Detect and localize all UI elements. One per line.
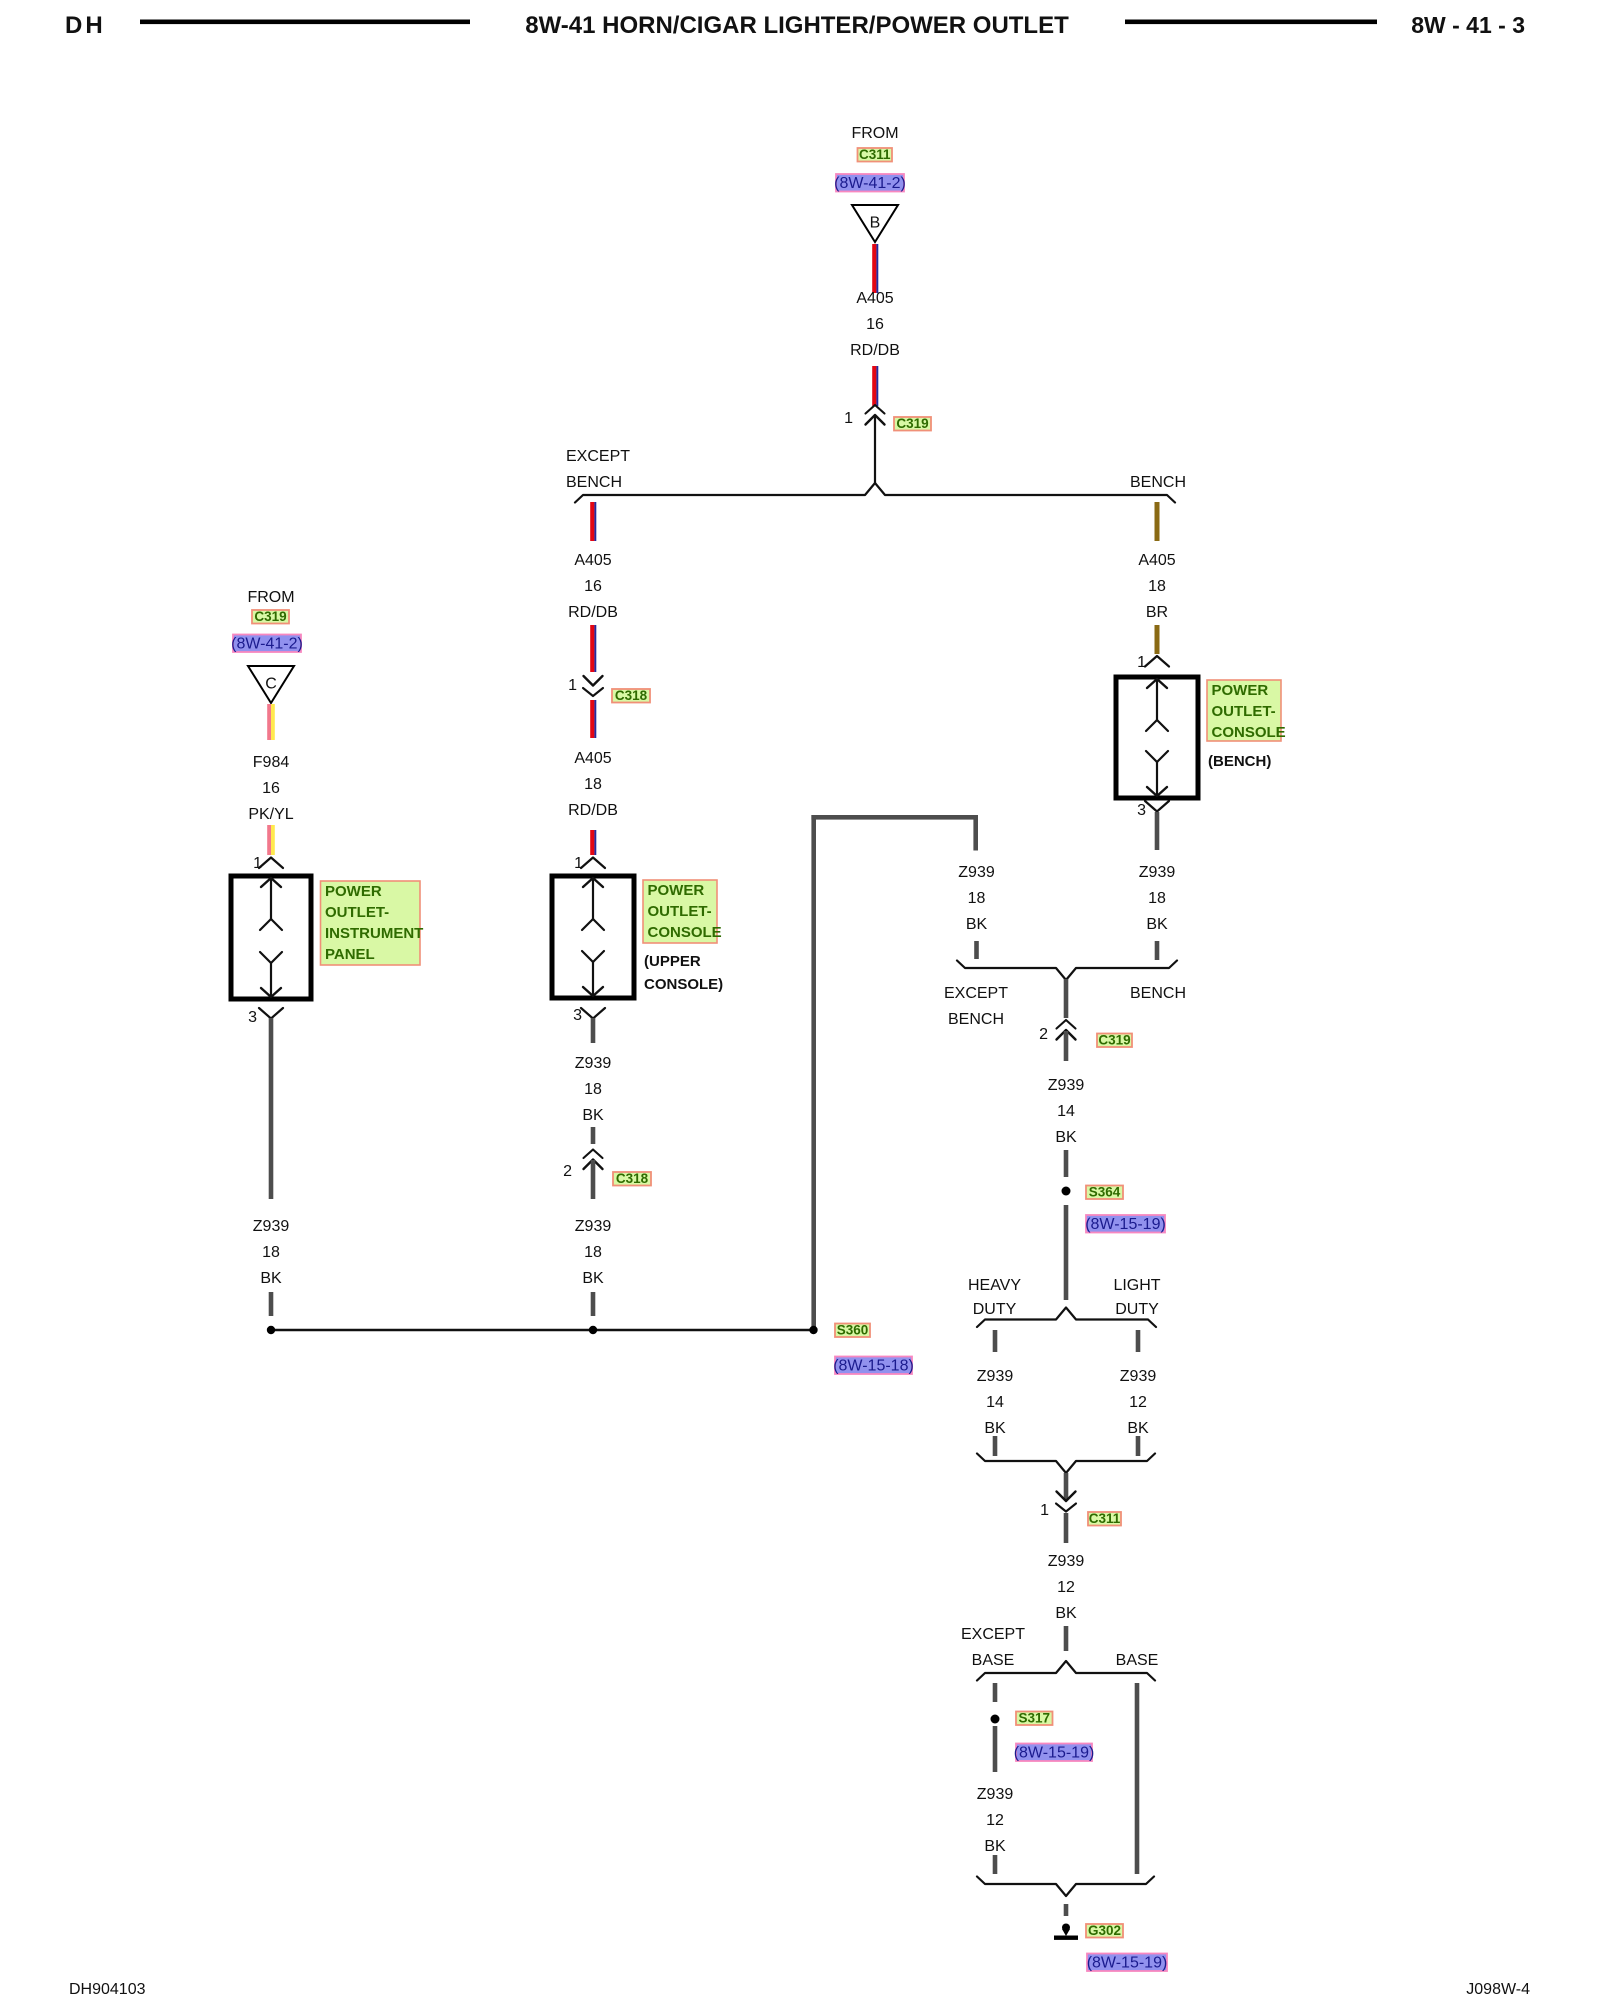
svg-text:RD/DB: RD/DB bbox=[850, 342, 900, 359]
wire Z939 12 BK stub (except base) bbox=[993, 1683, 998, 1702]
value label Z939 18 BK (instrument panel) bbox=[253, 1218, 290, 1287]
pin 1 terminal of power outlet-console (bench) bbox=[1145, 656, 1169, 667]
wire A405 18 RD/DB into power outlet console bbox=[590, 830, 596, 855]
option merge: heavy/light duty bbox=[977, 1454, 1155, 1474]
wire Z939 18 BK elbow from S360 bus to merge (except bench) bbox=[811, 815, 978, 1330]
wire A405 18 BR into power outlet-console (bench) bbox=[1155, 625, 1160, 654]
svg-text:BASE: BASE bbox=[972, 1652, 1015, 1669]
svg-text:14: 14 bbox=[1057, 1103, 1075, 1120]
svg-text:(8W-41-2): (8W-41-2) bbox=[834, 175, 906, 192]
svg-text:S317: S317 bbox=[1018, 1711, 1050, 1726]
value label Z939 12 BK (light duty) bbox=[1120, 1368, 1157, 1437]
wire Z939 18 BK stub into merge (except bench) bbox=[974, 941, 979, 959]
wire Z939 BK stub into ground G302 bbox=[1064, 1904, 1069, 1916]
svg-text:BASE: BASE bbox=[1116, 1652, 1159, 1669]
svg-text:POWER: POWER bbox=[325, 883, 382, 900]
component label POWER OUTLET-INSTRUMENT PANEL bbox=[321, 881, 424, 965]
svg-text:16: 16 bbox=[262, 780, 280, 797]
connector label C319 (left feed) bbox=[252, 609, 289, 624]
svg-text:1: 1 bbox=[844, 410, 853, 427]
svg-text:BK: BK bbox=[966, 916, 988, 933]
value label Z939 12 BK bbox=[1048, 1553, 1085, 1622]
svg-text:18: 18 bbox=[968, 890, 986, 907]
power outlet-instrument panel U1 bbox=[231, 876, 311, 999]
value label Z939 14 BK (heavy duty) bbox=[977, 1368, 1014, 1437]
svg-text:LIGHT: LIGHT bbox=[1113, 1277, 1160, 1294]
svg-text:B: B bbox=[870, 215, 881, 232]
svg-text:POWER: POWER bbox=[648, 882, 705, 899]
svg-text:C: C bbox=[265, 676, 277, 693]
svg-text:BK: BK bbox=[1146, 916, 1168, 933]
svg-text:8W - 41 - 3: 8W - 41 - 3 bbox=[1411, 12, 1525, 38]
value label F984 16 PK/YL bbox=[248, 754, 293, 823]
wire Z939 14 BK stub (heavy duty) bbox=[993, 1330, 998, 1352]
wire F984 16 PK/YL into power outlet-instrument panel bbox=[267, 825, 275, 855]
page header bbox=[65, 12, 1525, 39]
splice label S364 bbox=[1086, 1185, 1123, 1200]
svg-text:(8W-15-18): (8W-15-18) bbox=[833, 1358, 914, 1375]
connector label C318 (lower) bbox=[613, 1171, 651, 1186]
node FROM C311 heading bbox=[851, 125, 898, 142]
svg-text:EXCEPT: EXCEPT bbox=[944, 985, 1008, 1002]
svg-text:2: 2 bbox=[563, 1163, 572, 1180]
wire Z939 18 BK below power outlet-console (bench) bbox=[1155, 812, 1160, 850]
off-page connector B (from C311) bbox=[852, 205, 898, 242]
wire Z939 14 BK into splice S364 bbox=[1064, 1150, 1069, 1177]
svg-text:EXCEPT: EXCEPT bbox=[566, 448, 630, 465]
svg-text:BK: BK bbox=[1127, 1420, 1149, 1437]
svg-text:16: 16 bbox=[584, 578, 602, 595]
svg-text:A405: A405 bbox=[574, 552, 611, 569]
svg-text:Z939: Z939 bbox=[1139, 864, 1176, 881]
off-page connector C (from C319) bbox=[248, 666, 294, 703]
svg-text:18: 18 bbox=[584, 1244, 602, 1261]
svg-text:C319: C319 bbox=[254, 609, 286, 624]
pin 3 terminal of power outlet-console (upper) bbox=[581, 1008, 605, 1019]
connector C319 pin 1 (inline) bbox=[866, 405, 885, 425]
svg-text:S360: S360 bbox=[837, 1323, 869, 1338]
connector C311 pin 1 (inline) bbox=[1056, 1492, 1076, 1512]
wire from C319 to option split bbox=[874, 415, 876, 484]
reference label (8W-15-19) for G302 bbox=[1087, 1954, 1168, 1972]
svg-text:A405: A405 bbox=[856, 290, 893, 307]
svg-text:2: 2 bbox=[1039, 1026, 1048, 1043]
wire Z939 14 BK below C319 bbox=[1064, 1031, 1069, 1061]
svg-text:Z939: Z939 bbox=[958, 864, 995, 881]
svg-text:Z939: Z939 bbox=[977, 1368, 1014, 1385]
svg-text:BENCH: BENCH bbox=[566, 474, 622, 491]
value label Z939 14 BK bbox=[1048, 1077, 1085, 1146]
svg-text:1: 1 bbox=[568, 677, 577, 694]
svg-text:C311: C311 bbox=[1089, 1511, 1121, 1526]
svg-text:DUTY: DUTY bbox=[973, 1301, 1017, 1318]
svg-text:12: 12 bbox=[1129, 1394, 1147, 1411]
svg-text:BENCH: BENCH bbox=[1130, 985, 1186, 1002]
power outlet-console (bench) U3 bbox=[1116, 677, 1198, 798]
option label BENCH (right branch) bbox=[1130, 474, 1186, 491]
svg-text:HEAVY: HEAVY bbox=[968, 1277, 1021, 1294]
wire Z939 12 BK below S317 bbox=[993, 1726, 998, 1772]
svg-text:G302: G302 bbox=[1088, 1923, 1121, 1938]
svg-text:BR: BR bbox=[1146, 604, 1168, 621]
svg-text:Z939: Z939 bbox=[977, 1786, 1014, 1803]
reference label (8W-15-19) for S364 bbox=[1085, 1215, 1166, 1233]
svg-text:(8W-41-2): (8W-41-2) bbox=[231, 636, 303, 653]
svg-text:BK: BK bbox=[260, 1270, 282, 1287]
svg-text:1: 1 bbox=[574, 855, 583, 872]
svg-text:BK: BK bbox=[582, 1270, 604, 1287]
connector label C319 (top) bbox=[894, 416, 931, 431]
option split: EXCEPT BASE / BASE bbox=[977, 1661, 1155, 1681]
svg-text:Z939: Z939 bbox=[1048, 1553, 1085, 1570]
wire Z939 12 BK stub (light duty) bbox=[1136, 1330, 1141, 1352]
connector C318 pin 1 (inline) bbox=[583, 676, 603, 696]
svg-text:BK: BK bbox=[984, 1420, 1006, 1437]
svg-text:CONSOLE: CONSOLE bbox=[648, 924, 722, 941]
ground label G302 bbox=[1086, 1923, 1123, 1938]
wire Z939 18 BK below power outlet-instrument panel bbox=[269, 1018, 274, 1199]
svg-text:1: 1 bbox=[1040, 1502, 1049, 1519]
svg-text:(8W-15-19): (8W-15-19) bbox=[1087, 1955, 1168, 1972]
wire Z939 18 BK stub into merge (bench) bbox=[1155, 941, 1160, 960]
wire Z939 12 BK (base) long run bbox=[1135, 1683, 1140, 1874]
reference label (8W-41-2) for C319 bbox=[231, 635, 303, 653]
svg-text:F984: F984 bbox=[253, 754, 290, 771]
pin 1 terminal of power outlet-console (upper) bbox=[581, 858, 605, 869]
svg-text:18: 18 bbox=[1148, 890, 1166, 907]
svg-text:BK: BK bbox=[1055, 1605, 1077, 1622]
svg-text:BENCH: BENCH bbox=[1130, 474, 1186, 491]
svg-text:C318: C318 bbox=[616, 1171, 649, 1186]
option label EXCEPT BENCH (left branch) bbox=[566, 448, 630, 491]
svg-text:PK/YL: PK/YL bbox=[248, 806, 293, 823]
svg-text:CONSOLE): CONSOLE) bbox=[644, 976, 723, 993]
value label A405 18 BR bbox=[1138, 552, 1175, 621]
svg-text:A405: A405 bbox=[1138, 552, 1175, 569]
svg-text:18: 18 bbox=[1148, 578, 1166, 595]
wire Z939 18 BK below power outlet-console (upper) bbox=[591, 1018, 596, 1043]
value label Z939 18 BK (except bench) bbox=[958, 864, 995, 933]
wire A405 16 RD/DB left branch (from split) bbox=[590, 502, 596, 541]
svg-text:BK: BK bbox=[984, 1838, 1006, 1855]
svg-text:PANEL: PANEL bbox=[325, 946, 375, 963]
svg-text:C319: C319 bbox=[1098, 1033, 1130, 1048]
svg-text:DUTY: DUTY bbox=[1115, 1301, 1159, 1318]
reference label (8W-15-18) for S360 bbox=[833, 1357, 914, 1375]
value label A405 18 RD/DB bbox=[568, 750, 618, 819]
option label BENCH (merge) bbox=[1130, 985, 1186, 1002]
wire Z939 18 BK stub into S360 bbox=[591, 1292, 596, 1316]
value label Z939 18 BK (to S360, center) bbox=[575, 1218, 612, 1287]
option merge: to ground G302 bbox=[977, 1877, 1154, 1897]
svg-text:14: 14 bbox=[986, 1394, 1004, 1411]
svg-text:OUTLET-: OUTLET- bbox=[1212, 703, 1276, 720]
option label EXCEPT BASE bbox=[961, 1626, 1025, 1669]
svg-text:J098W-4: J098W-4 bbox=[1466, 1981, 1530, 1998]
wire Z939 12 BK stub into merge (light duty) bbox=[1136, 1436, 1141, 1456]
splice S360 junction dot (center) bbox=[589, 1326, 597, 1334]
connector C319 pin 2 (inline) bbox=[1057, 1020, 1076, 1040]
svg-text:OUTLET-: OUTLET- bbox=[325, 904, 389, 921]
value label A405 16 RD/DB (top) bbox=[850, 290, 900, 359]
svg-text:(8W-15-19): (8W-15-19) bbox=[1085, 1216, 1166, 1233]
connector label C311 (top feed) bbox=[858, 147, 893, 162]
wire Z939 14 BK from S364 to duty split bbox=[1064, 1205, 1069, 1300]
svg-text:INSTRUMENT: INSTRUMENT bbox=[325, 925, 423, 942]
value label Z939 12 BK (except base) bbox=[977, 1786, 1014, 1855]
svg-text:BENCH: BENCH bbox=[948, 1011, 1004, 1028]
svg-text:RD/DB: RD/DB bbox=[568, 802, 618, 819]
splice S360 bus wire bbox=[271, 1329, 814, 1331]
svg-text:1: 1 bbox=[253, 855, 262, 872]
svg-text:3: 3 bbox=[248, 1009, 257, 1026]
svg-text:1: 1 bbox=[1137, 654, 1146, 671]
wire Z939 BK from merge into C319 pin 2 bbox=[1064, 979, 1069, 1018]
component label POWER OUTLET-CONSOLE (bench) bbox=[1207, 680, 1286, 741]
wire Z939 18 BK stub into S360 bbox=[269, 1292, 274, 1316]
connector C318 pin 2 (inline) bbox=[584, 1150, 603, 1170]
svg-text:18: 18 bbox=[262, 1244, 280, 1261]
wire Z939 14 BK stub into merge (heavy duty) bbox=[993, 1436, 998, 1456]
value label Z939 18 BK (upper console) bbox=[575, 1055, 612, 1124]
svg-text:DH: DH bbox=[65, 12, 106, 39]
splice S317 junction dot bbox=[991, 1715, 1000, 1724]
option label HEAVY DUTY bbox=[968, 1277, 1021, 1318]
wire Z939 12 BK stub into ground merge (except base) bbox=[993, 1855, 998, 1874]
component label POWER OUTLET-CONSOLE (upper) bbox=[643, 880, 722, 943]
splice S360 junction dot (left) bbox=[267, 1326, 275, 1334]
svg-text:CONSOLE: CONSOLE bbox=[1212, 724, 1286, 741]
svg-text:3: 3 bbox=[573, 1007, 582, 1024]
option label EXCEPT BENCH (merge) bbox=[944, 985, 1008, 1028]
svg-text:12: 12 bbox=[1057, 1579, 1075, 1596]
svg-text:S364: S364 bbox=[1089, 1185, 1121, 1200]
page footer bbox=[69, 1981, 1530, 1998]
wire A405 16 RD/DB into C319 (lower segment) bbox=[872, 366, 878, 406]
svg-text:8W-41 HORN/CIGAR LIGHTER/POWER: 8W-41 HORN/CIGAR LIGHTER/POWER OUTLET bbox=[525, 12, 1069, 39]
value label A405 16 RD/DB (left branch) bbox=[568, 552, 618, 621]
svg-text:18: 18 bbox=[584, 1081, 602, 1098]
option split: HEAVY DUTY / LIGHT DUTY bbox=[977, 1308, 1156, 1328]
option split: EXCEPT BENCH / BENCH bbox=[575, 483, 1175, 503]
component sublabel (UPPER CONSOLE) bbox=[644, 953, 723, 993]
connector label C319 (lower) bbox=[1097, 1033, 1132, 1048]
wire Z939 12 BK into base split bbox=[1064, 1626, 1069, 1651]
reference label (8W-41-2) for C311 bbox=[834, 174, 906, 192]
wire Z939 BK from merge into C311 pin 1 bbox=[1064, 1473, 1069, 1500]
wire Z939 18 BK into C318 pin 2 bbox=[591, 1127, 596, 1144]
svg-text:C318: C318 bbox=[615, 688, 648, 703]
svg-text:3: 3 bbox=[1137, 802, 1146, 819]
value label Z939 18 BK (bench) bbox=[1139, 864, 1176, 933]
wire A405 16 RD/DB into C318 bbox=[590, 625, 596, 672]
svg-text:FROM: FROM bbox=[247, 589, 294, 606]
wire A405 18 RD/DB below C318 bbox=[590, 700, 596, 738]
pin 3 terminal of power outlet-instrument panel bbox=[259, 1008, 283, 1019]
svg-text:A405: A405 bbox=[574, 750, 611, 767]
svg-text:EXCEPT: EXCEPT bbox=[961, 1626, 1025, 1643]
connector label C318 (upper) bbox=[612, 688, 650, 703]
svg-text:C319: C319 bbox=[896, 416, 928, 431]
wire Z939 18 BK below C318 bbox=[591, 1160, 596, 1199]
svg-text:POWER: POWER bbox=[1212, 682, 1269, 699]
svg-text:BK: BK bbox=[1055, 1129, 1077, 1146]
svg-text:C311: C311 bbox=[859, 147, 891, 162]
splice S364 junction dot bbox=[1062, 1187, 1071, 1196]
svg-text:FROM: FROM bbox=[851, 125, 898, 142]
wire F984 16 PK/YL upper segment bbox=[267, 704, 275, 740]
splice label S360 bbox=[835, 1323, 870, 1338]
option label LIGHT DUTY bbox=[1113, 1277, 1160, 1318]
svg-text:Z939: Z939 bbox=[1048, 1077, 1085, 1094]
svg-text:(UPPER: (UPPER bbox=[644, 953, 701, 970]
reference label (8W-15-19) for S317 bbox=[1014, 1744, 1095, 1762]
pin 1 terminal of power outlet-instrument panel bbox=[259, 858, 283, 869]
ground G302 symbol bbox=[1054, 1924, 1078, 1940]
option merge: EXCEPT BENCH / BENCH bbox=[957, 961, 1177, 981]
svg-text:Z939: Z939 bbox=[575, 1218, 612, 1235]
option label BASE bbox=[1116, 1652, 1159, 1669]
connector label C311 (lower) bbox=[1088, 1511, 1121, 1526]
svg-text:12: 12 bbox=[986, 1812, 1004, 1829]
pin 3 terminal of power outlet-console (bench) bbox=[1145, 801, 1169, 812]
power outlet-console (upper console) U2 bbox=[552, 876, 634, 998]
wire Z939 12 BK below C311 bbox=[1064, 1513, 1069, 1543]
splice label S317 bbox=[1016, 1711, 1053, 1726]
wire A405 16 RD/DB from connector B (upper segment) bbox=[872, 244, 878, 293]
svg-text:Z939: Z939 bbox=[253, 1218, 290, 1235]
svg-text:16: 16 bbox=[866, 316, 884, 333]
svg-text:BK: BK bbox=[582, 1107, 604, 1124]
svg-text:Z939: Z939 bbox=[575, 1055, 612, 1072]
svg-text:DH904103: DH904103 bbox=[69, 1981, 146, 1998]
svg-text:(8W-15-19): (8W-15-19) bbox=[1014, 1745, 1095, 1762]
svg-text:(BENCH): (BENCH) bbox=[1208, 753, 1271, 770]
splice S360 junction dot (right) bbox=[809, 1326, 817, 1334]
svg-text:Z939: Z939 bbox=[1120, 1368, 1157, 1385]
wire A405 18 BR right branch (from split) bbox=[1155, 502, 1160, 541]
svg-text:18: 18 bbox=[584, 776, 602, 793]
svg-text:OUTLET-: OUTLET- bbox=[648, 903, 712, 920]
svg-text:RD/DB: RD/DB bbox=[568, 604, 618, 621]
component sublabel (BENCH) bbox=[1208, 753, 1271, 770]
node FROM C319 heading bbox=[247, 589, 294, 606]
